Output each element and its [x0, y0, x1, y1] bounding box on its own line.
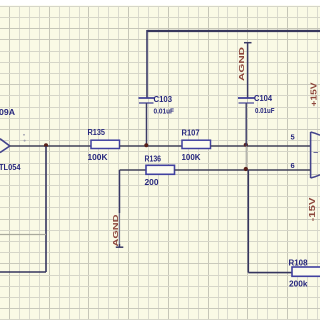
wire: thick output bus along y=31 from x=147 to right edge [147, 30, 320, 32]
junction dot on pin6 wire [244, 167, 248, 171]
svg-text:R136: R136 [145, 155, 162, 164]
wire: faint continuation between pin5 and pin6 wires [245, 146, 247, 170]
svg-text:R135: R135 [88, 128, 106, 137]
wire: R135 to R107 [120, 145, 183, 147]
svg-text:TL054: TL054 [0, 163, 21, 172]
op-amp U2 (partial, clipped at right edge) [311, 132, 320, 178]
junction dot at feedback tap [44, 143, 48, 147]
svg-text:C103: C103 [154, 95, 173, 104]
svg-text:100K: 100K [88, 152, 109, 162]
svg-text:200: 200 [145, 177, 159, 187]
wire: R107 to op-amp pin 5 [211, 145, 311, 147]
wire: AGND stem down to C104 [247, 43, 249, 98]
svg-text:R107: R107 [182, 129, 201, 138]
capacitor C104 [238, 94, 275, 115]
pin marks near U109A output (faint) [23, 134, 26, 142]
svg-text:100K: 100K [182, 152, 202, 162]
wire: C104 stem down to pin5 wire [245, 103, 247, 146]
svg-text:AGND: AGND [111, 215, 120, 247]
svg-text:5: 5 [291, 133, 295, 142]
resistor R136 [145, 155, 175, 188]
wire: vertical from bus corner down to C103 top [146, 30, 148, 98]
resistor R107 [182, 129, 211, 163]
wire: vertical from pin6 junction down to R108 level [247, 170, 249, 273]
guide line (gray) into feedback wire [0, 234, 46, 236]
svg-text:0.01uF: 0.01uF [154, 107, 175, 116]
svg-text:C104: C104 [254, 94, 273, 103]
wire: AGND corner to R136 [120, 169, 147, 171]
svg-text:6: 6 [291, 161, 295, 170]
svg-text:R108: R108 [289, 259, 309, 268]
svg-text:-15V: -15V [308, 197, 317, 222]
power port AGND (top) [237, 43, 252, 81]
resistor R135 [88, 128, 120, 162]
wire: horizontal to R108 [248, 272, 292, 274]
capacitor C103 [139, 95, 175, 116]
junction dot at C104 stem on pin5 wire [244, 143, 248, 147]
wire: C103 bottom stem down to main wire [146, 103, 148, 146]
wire: feedback horizontal to left edge [0, 271, 46, 273]
svg-text:200k: 200k [289, 279, 308, 289]
wire: op-amp output to R135 [10, 145, 91, 147]
wire: R136 to op-amp pin 6 [175, 169, 311, 171]
junction dot at C103 stem [144, 143, 148, 147]
resistor R108 [289, 259, 320, 289]
svg-text:0.01uF: 0.01uF [255, 106, 275, 115]
svg-text:+15V: +15V [310, 82, 319, 107]
svg-text:AGND: AGND [237, 46, 246, 81]
power port AGND (bottom) [111, 170, 123, 247]
wire: feedback vertical from output junction down [45, 146, 47, 272]
svg-text:09A: 09A [0, 107, 15, 117]
op-amp U109A (partial, clipped at left edge) [0, 107, 21, 172]
top white margin strip [0, 0, 320, 6]
